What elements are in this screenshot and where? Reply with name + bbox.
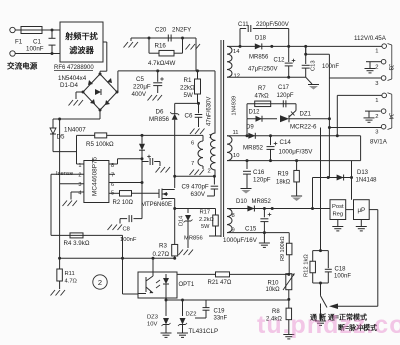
svg-text:D5: D5 (57, 134, 65, 141)
svg-text:1: 1 (375, 98, 378, 104)
svg-text:10V: 10V (147, 322, 157, 328)
svg-text:DZ3: DZ3 (147, 315, 158, 321)
svg-text:DZ1: DZ1 (300, 112, 312, 118)
svg-text:Post: Post (332, 204, 344, 210)
svg-text:1: 1 (375, 49, 378, 55)
svg-text:1N5404x4: 1N5404x4 (58, 75, 87, 82)
svg-text:120pF: 120pF (253, 177, 271, 184)
svg-text:3: 3 (375, 81, 378, 87)
svg-text:1N4939: 1N4939 (232, 96, 238, 116)
svg-text:TL431CLP: TL431CLP (189, 328, 219, 335)
svg-text:D13: D13 (357, 170, 369, 176)
svg-text:C5: C5 (136, 76, 144, 83)
svg-text:0.27Ω: 0.27Ω (153, 251, 170, 258)
svg-text:3: 3 (78, 182, 81, 188)
svg-text:2: 2 (78, 173, 81, 179)
svg-text:10: 10 (233, 153, 239, 159)
svg-text:R3: R3 (159, 243, 167, 250)
svg-text:R12 1kΩ: R12 1kΩ (304, 254, 310, 277)
svg-text:47kΩ: 47kΩ (255, 94, 270, 100)
svg-text:D10: D10 (236, 199, 248, 205)
svg-text:D9: D9 (246, 125, 254, 131)
svg-text:tu.pndzz.co: tu.pndzz.co (257, 311, 400, 339)
svg-text:F1: F1 (15, 39, 23, 46)
svg-text:R2 10Ω: R2 10Ω (113, 200, 134, 206)
svg-text:400V: 400V (132, 91, 147, 98)
svg-text:R17: R17 (200, 210, 211, 216)
svg-text:OPT1: OPT1 (179, 282, 195, 288)
svg-text:R21 47Ω: R21 47Ω (208, 280, 232, 286)
svg-text:C1: C1 (33, 39, 41, 46)
svg-text:7: 7 (191, 161, 194, 167)
svg-text:2.2kΩ: 2.2kΩ (199, 217, 214, 223)
svg-text:112V/0.45A: 112V/0.45A (354, 35, 387, 42)
svg-text:MR852: MR852 (243, 145, 264, 152)
svg-text:MTP6N60E: MTP6N60E (141, 202, 172, 208)
svg-text:μP: μP (357, 207, 365, 214)
svg-text:C8: C8 (123, 227, 130, 233)
svg-text:J4: J4 (387, 113, 393, 120)
svg-text:5W: 5W (201, 224, 210, 230)
svg-text:R10: R10 (268, 281, 280, 287)
svg-text:C16: C16 (253, 169, 265, 176)
svg-text:射频干扰: 射频干扰 (64, 31, 99, 41)
svg-text:8V/1A: 8V/1A (370, 139, 388, 146)
svg-text:1000μF/35V: 1000μF/35V (279, 149, 314, 156)
svg-text:C13: C13 (311, 60, 317, 71)
svg-text:8: 8 (232, 213, 235, 219)
svg-text:1N4148: 1N4148 (356, 178, 378, 184)
svg-text:MR852: MR852 (252, 199, 272, 205)
svg-text:4.7kΩ/4W: 4.7kΩ/4W (148, 60, 175, 67)
svg-text:交流电源: 交流电源 (7, 61, 38, 71)
svg-text:100nF: 100nF (334, 274, 351, 280)
svg-text:2: 2 (375, 65, 378, 71)
svg-text:C19: C19 (214, 309, 226, 315)
svg-text:8: 8 (111, 163, 114, 169)
svg-text:D6: D6 (156, 109, 164, 116)
svg-text:7: 7 (111, 173, 114, 179)
svg-text:C12: C12 (274, 58, 286, 64)
svg-text:220μF: 220μF (133, 84, 151, 91)
svg-text:MR856: MR856 (184, 236, 203, 242)
svg-text:R11: R11 (65, 271, 75, 277)
svg-text:Reg: Reg (332, 212, 343, 218)
svg-text:R16: R16 (155, 43, 167, 50)
svg-text:6: 6 (191, 141, 194, 147)
svg-text:R19: R19 (278, 172, 290, 178)
svg-text:R1: R1 (184, 77, 192, 84)
svg-text:22kΩ: 22kΩ (180, 85, 195, 92)
svg-text:C15: C15 (245, 226, 257, 233)
svg-text:J3: J3 (387, 64, 393, 71)
svg-text:C9 470pF: C9 470pF (182, 184, 209, 191)
svg-text:3: 3 (375, 130, 378, 136)
svg-text:C20: C20 (155, 27, 167, 34)
svg-text:C11: C11 (238, 22, 249, 28)
svg-text:MR856: MR856 (249, 55, 269, 61)
svg-text:Isense: Isense (56, 171, 73, 177)
svg-text:C18: C18 (335, 267, 347, 273)
svg-text:R7: R7 (258, 86, 266, 92)
svg-text:滤波器: 滤波器 (69, 45, 94, 55)
svg-text:10kΩ: 10kΩ (266, 287, 281, 293)
svg-text:120pF: 120pF (277, 93, 294, 99)
svg-text:14: 14 (233, 49, 240, 55)
svg-text:4.7Ω: 4.7Ω (65, 279, 78, 285)
svg-text:DZ2: DZ2 (186, 312, 197, 318)
svg-text:630V: 630V (191, 191, 206, 198)
svg-text:MC44608P75: MC44608P75 (92, 156, 99, 196)
svg-text:MR856: MR856 (149, 116, 170, 123)
svg-text:4: 4 (78, 190, 81, 196)
svg-text:1000μF/16V: 1000μF/16V (223, 237, 258, 244)
svg-text:R4 3.9kΩ: R4 3.9kΩ (64, 240, 90, 247)
svg-text:18kΩ: 18kΩ (276, 180, 291, 186)
svg-text:2: 2 (208, 169, 211, 175)
svg-text:D1-D4: D1-D4 (60, 82, 78, 89)
svg-text:33nF: 33nF (214, 316, 228, 322)
svg-text:D14: D14 (179, 216, 185, 226)
svg-text:C6: C6 (185, 113, 193, 120)
svg-text:100nF: 100nF (322, 64, 339, 70)
svg-text:220pF/500V: 220pF/500V (256, 22, 289, 28)
svg-text:1N4007: 1N4007 (64, 127, 86, 134)
svg-text:5W: 5W (184, 92, 193, 99)
svg-text:100nF: 100nF (26, 46, 44, 53)
svg-text:C17: C17 (278, 85, 290, 91)
svg-text:R5 100kΩ: R5 100kΩ (86, 141, 114, 148)
svg-text:47nF/630V: 47nF/630V (207, 97, 213, 126)
svg-text:2: 2 (375, 114, 378, 120)
svg-text:C14: C14 (280, 139, 292, 146)
svg-text:1: 1 (209, 134, 212, 140)
svg-text:11: 11 (233, 130, 239, 136)
svg-text:47μF/250V: 47μF/250V (248, 67, 277, 73)
svg-text:R9 100kΩ: R9 100kΩ (280, 236, 286, 261)
svg-text:2: 2 (98, 278, 102, 287)
svg-text:D12: D12 (249, 110, 261, 116)
svg-text:2N2FY: 2N2FY (172, 27, 191, 34)
svg-text:MCR22-6: MCR22-6 (290, 124, 317, 131)
svg-text:D18: D18 (255, 36, 267, 42)
svg-text:12: 12 (234, 74, 240, 80)
